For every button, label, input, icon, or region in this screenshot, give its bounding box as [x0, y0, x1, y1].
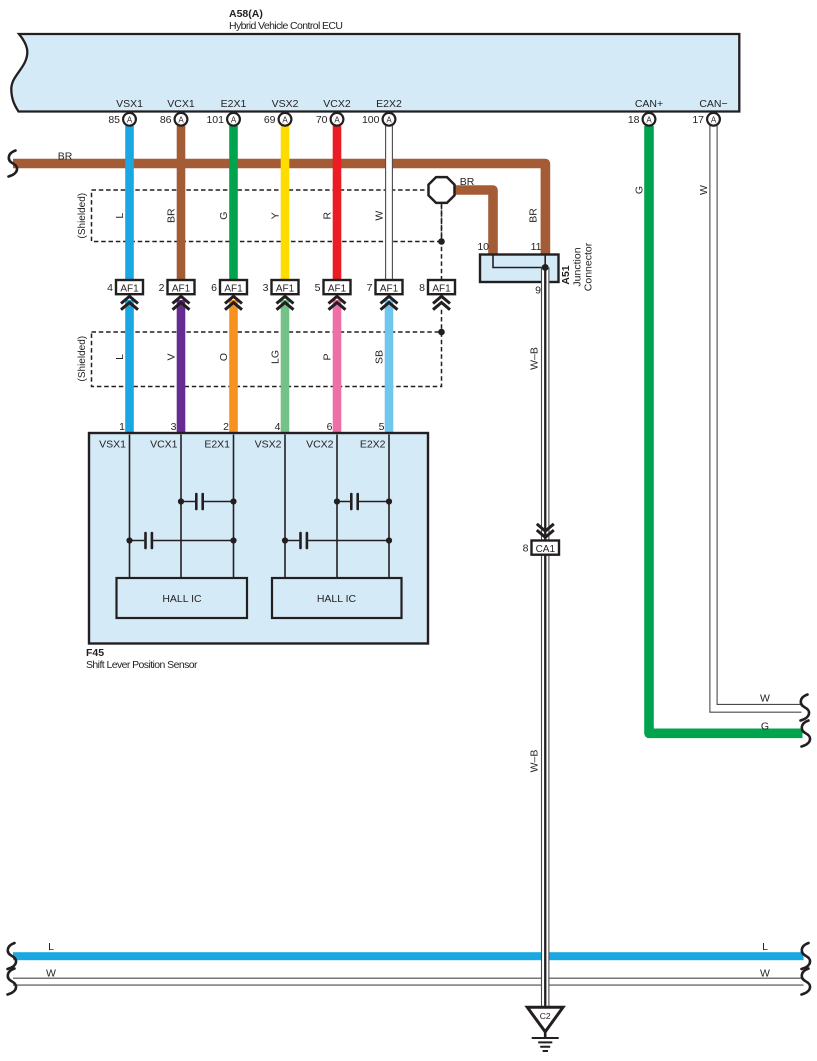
svg-text:Shift Lever Position Sensor: Shift Lever Position Sensor	[86, 659, 198, 671]
svg-text:BR: BR	[166, 208, 178, 223]
svg-text:4: 4	[107, 282, 113, 294]
W squiggle left	[8, 969, 17, 995]
wire W from CAN- to right edge	[710, 126, 802, 712]
svg-text:VCX1: VCX1	[150, 439, 178, 451]
BR branch label	[460, 176, 475, 188]
svg-text:HALL IC: HALL IC	[317, 593, 357, 605]
svg-text:101: 101	[206, 114, 224, 126]
wire L from AF1 to F45	[125, 300, 134, 433]
W bottom label right	[760, 967, 770, 979]
svg-text:V: V	[166, 353, 178, 360]
svg-text:A58(A): A58(A)	[229, 8, 263, 20]
svg-text:L: L	[762, 941, 768, 953]
L bottom label right	[762, 941, 768, 953]
ground bars	[532, 1038, 559, 1051]
svg-text:E2X2: E2X2	[360, 439, 386, 451]
svg-text:A: A	[711, 116, 717, 125]
F45 pin 5 E2X2	[360, 421, 386, 451]
svg-text:G: G	[761, 721, 769, 733]
svg-text:86: 86	[160, 114, 172, 126]
svg-text:BR: BR	[528, 208, 540, 223]
connector AF1 pin 6	[211, 280, 247, 294]
svg-text:W: W	[46, 967, 56, 979]
svg-text:(Shielded): (Shielded)	[77, 193, 88, 239]
svg-text:AF1: AF1	[224, 283, 243, 294]
svg-text:7: 7	[367, 282, 373, 294]
svg-text:8: 8	[523, 543, 529, 555]
connector AF1 pin 4	[107, 280, 143, 294]
svg-text:4: 4	[275, 421, 281, 433]
svg-text:P: P	[322, 353, 334, 360]
wire P from AF1 to F45	[333, 300, 342, 433]
svg-text:Connector: Connector	[583, 242, 595, 291]
svg-text:A: A	[334, 116, 340, 125]
svg-text:G: G	[634, 186, 646, 194]
svg-text:G: G	[218, 212, 230, 220]
connector AF1 pin 6 chevron	[225, 296, 242, 309]
svg-text:VCX2: VCX2	[323, 98, 351, 110]
svg-text:W: W	[760, 693, 770, 705]
svg-text:A: A	[127, 116, 133, 125]
W bottom label left	[46, 967, 56, 979]
svg-text:A: A	[646, 116, 652, 125]
W squiggle right	[802, 969, 811, 995]
junction connector A51 box	[480, 255, 559, 283]
capacitor C (VCX1-E2X1)	[178, 494, 237, 509]
A51 pin 11 label	[531, 241, 542, 253]
wire G from E2X1 to AF1	[229, 126, 238, 280]
ECU pin 100 E2X2	[362, 98, 402, 126]
svg-text:BR: BR	[58, 151, 73, 163]
connector AF1 pin 5 chevron	[329, 296, 346, 309]
svg-text:W–B: W–B	[529, 750, 541, 773]
wire LG from AF1 to F45	[281, 300, 290, 433]
capacitor C (VSX2-E2X2)	[282, 533, 392, 548]
svg-text:O: O	[218, 353, 230, 361]
svg-text:E2X1: E2X1	[221, 98, 247, 110]
svg-text:11: 11	[531, 241, 542, 253]
connector CA1 chevron	[537, 524, 554, 537]
svg-text:AF1: AF1	[328, 283, 347, 294]
svg-text:17: 17	[692, 114, 704, 126]
shield box lower (Shielded)	[77, 332, 442, 387]
capacitor C (VSX1-E2X1)	[126, 533, 236, 548]
svg-text:W: W	[760, 967, 770, 979]
wire W from E2X2 to AF1	[385, 126, 393, 280]
F45 name label	[86, 659, 198, 671]
svg-text:F45: F45	[86, 647, 104, 659]
wire L from VSX1 to AF1	[125, 126, 134, 280]
connector AF1 pin 4 chevron	[121, 296, 138, 309]
A51 pin 10 label	[477, 241, 489, 253]
svg-text:C2: C2	[540, 1011, 551, 1021]
wire BR branch octagon to A51 pin 10	[448, 190, 493, 255]
svg-text:A: A	[178, 116, 184, 125]
svg-text:HALL IC: HALL IC	[162, 593, 202, 605]
wire SB from AF1 to F45	[385, 300, 394, 433]
svg-text:18: 18	[628, 114, 640, 126]
BR trunk label	[58, 151, 73, 163]
svg-text:A51: A51	[560, 265, 572, 284]
svg-text:A: A	[282, 116, 288, 125]
A51 pin 9 label	[535, 285, 541, 297]
svg-text:W: W	[374, 211, 386, 221]
connector AF1 pin 2 chevron	[173, 296, 190, 309]
F45 pin 6 VCX2	[306, 421, 334, 451]
svg-text:R: R	[322, 211, 334, 219]
F45 internal wire VCX2	[336, 435, 338, 579]
A51 internal junction dot	[542, 264, 549, 271]
svg-text:VSX2: VSX2	[255, 439, 282, 451]
G squiggle right	[802, 721, 811, 747]
svg-text:85: 85	[108, 114, 120, 126]
L squiggle right	[802, 943, 811, 969]
svg-text:6: 6	[327, 421, 333, 433]
A51 internal bus wire	[493, 255, 545, 268]
ECU pin 101 E2X1	[206, 98, 246, 126]
svg-text:VSX1: VSX1	[116, 98, 143, 110]
svg-text:VCX2: VCX2	[306, 439, 334, 451]
svg-text:CAN+: CAN+	[635, 98, 663, 110]
F45 pin 4 VSX2	[255, 421, 282, 451]
shield drain dashed wire octagon-to-AF1	[441, 203, 443, 280]
svg-text:70: 70	[316, 114, 328, 126]
wire W bottom horizontal	[13, 978, 804, 985]
svg-text:A: A	[231, 116, 237, 125]
F45 internal wire E2X1	[233, 435, 235, 579]
svg-text:AF1: AF1	[380, 283, 399, 294]
ground stem	[544, 1032, 547, 1038]
svg-text:L: L	[114, 354, 126, 360]
svg-text:E2X2: E2X2	[376, 98, 402, 110]
svg-text:SB: SB	[374, 350, 386, 364]
svg-text:2: 2	[159, 282, 165, 294]
ECU pin 86 VCX1	[160, 98, 195, 126]
wire BR from VCX1 to AF1	[177, 126, 186, 280]
HALL IC right	[272, 578, 402, 618]
capacitor C (VCX2-E2X2)	[334, 494, 392, 509]
svg-text:AF1: AF1	[172, 283, 191, 294]
svg-text:CA1: CA1	[536, 544, 556, 555]
svg-text:AF1: AF1	[120, 283, 139, 294]
svg-text:VCX1: VCX1	[167, 98, 195, 110]
connector AF1 pin 7	[367, 280, 403, 294]
F45 internal wire VSX1	[129, 435, 131, 579]
W horizontal label	[760, 693, 770, 705]
junction dot upper shield	[438, 238, 445, 245]
svg-text:(Shielded): (Shielded)	[77, 336, 88, 382]
svg-text:CAN−: CAN−	[699, 98, 727, 110]
svg-text:E2X1: E2X1	[204, 439, 230, 451]
connector AF1 pin 7 chevron	[381, 296, 398, 309]
svg-text:8: 8	[419, 282, 425, 294]
connector AF1 pin 3	[263, 280, 299, 294]
ECU pin 18 CAN+	[628, 98, 663, 126]
svg-text:AF1: AF1	[432, 283, 451, 294]
connector CA1 pin 8	[523, 541, 559, 555]
sensor F45 box	[89, 433, 428, 644]
A51 name label	[572, 242, 595, 291]
svg-text:L: L	[48, 941, 54, 953]
wire L bottom horizontal	[13, 952, 804, 960]
W squiggle right	[801, 695, 810, 721]
ECU pin 70 VCX2	[316, 98, 351, 126]
F45 internal wire VSX2	[284, 435, 286, 579]
svg-text:6: 6	[211, 282, 217, 294]
svg-text:10: 10	[477, 241, 489, 253]
octagon shield node	[429, 177, 455, 203]
wire R from VCX2 to AF1	[333, 126, 342, 280]
wire W-B from A51 pin 9 to ground C2	[541, 268, 549, 1008]
wire BR trunk horizontal/vertical to A51 pin 11	[13, 164, 545, 256]
svg-text:L: L	[114, 213, 126, 219]
svg-text:BR: BR	[460, 176, 475, 188]
svg-text:Hybrid Vehicle Control ECU: Hybrid Vehicle Control ECU	[229, 20, 343, 32]
wire Y from VSX2 to AF1	[281, 126, 290, 280]
svg-text:W: W	[698, 185, 710, 195]
svg-text:3: 3	[263, 282, 269, 294]
F45 internal wire E2X2	[388, 435, 390, 579]
A51 internal junction dot (over wire)	[542, 264, 549, 271]
connector AF1 pin 5	[315, 280, 351, 294]
F45 internal wire VCX1	[180, 435, 182, 579]
svg-text:2: 2	[223, 421, 229, 433]
svg-text:VSX2: VSX2	[272, 98, 299, 110]
shield box upper (Shielded)	[77, 190, 442, 242]
wire O from AF1 to F45	[229, 300, 238, 433]
junction dot lower shield	[438, 329, 445, 336]
svg-text:LG: LG	[270, 350, 282, 364]
F45 label	[86, 647, 104, 659]
ECU title A58(A)	[229, 8, 263, 20]
wire G from CAN+ to right edge	[649, 126, 803, 733]
ECU pin 17 CAN−	[692, 98, 727, 126]
svg-text:100: 100	[362, 114, 380, 126]
ECU pin 85 VSX1	[108, 98, 143, 126]
G horizontal label	[761, 721, 769, 733]
ECU A58(A) box	[11, 34, 739, 112]
F45 pin 3 VCX1	[150, 421, 178, 451]
svg-text:1: 1	[119, 421, 125, 433]
svg-text:W–B: W–B	[529, 347, 541, 370]
svg-text:A: A	[386, 116, 392, 125]
L bottom label left	[48, 941, 54, 953]
connector AF1 pin 3 chevron	[277, 296, 294, 309]
HALL IC left	[117, 578, 248, 618]
svg-text:9: 9	[535, 285, 541, 297]
F45 pin 1 VSX1	[99, 421, 126, 451]
shield drain dashed wire AF1-to-lower-box	[441, 310, 443, 332]
svg-text:3: 3	[171, 421, 177, 433]
F45 pin 2 E2X1	[204, 421, 230, 451]
connector AF1 pin 2	[159, 280, 195, 294]
ground C2 triangle	[527, 1007, 563, 1032]
wire V from AF1 to F45	[177, 300, 186, 433]
connector AF1 pin 8 chevron	[433, 296, 450, 309]
svg-text:5: 5	[379, 421, 385, 433]
BR trunk squiggle left	[9, 151, 18, 177]
connector AF1 pin 8	[419, 280, 455, 294]
ECU subtitle	[229, 20, 343, 32]
svg-text:VSX1: VSX1	[99, 439, 126, 451]
svg-text:Y: Y	[270, 212, 282, 219]
ECU pin 69 VSX2	[264, 98, 299, 126]
svg-text:5: 5	[315, 282, 321, 294]
svg-text:AF1: AF1	[276, 283, 295, 294]
svg-text:69: 69	[264, 114, 276, 126]
L squiggle left	[8, 943, 17, 969]
